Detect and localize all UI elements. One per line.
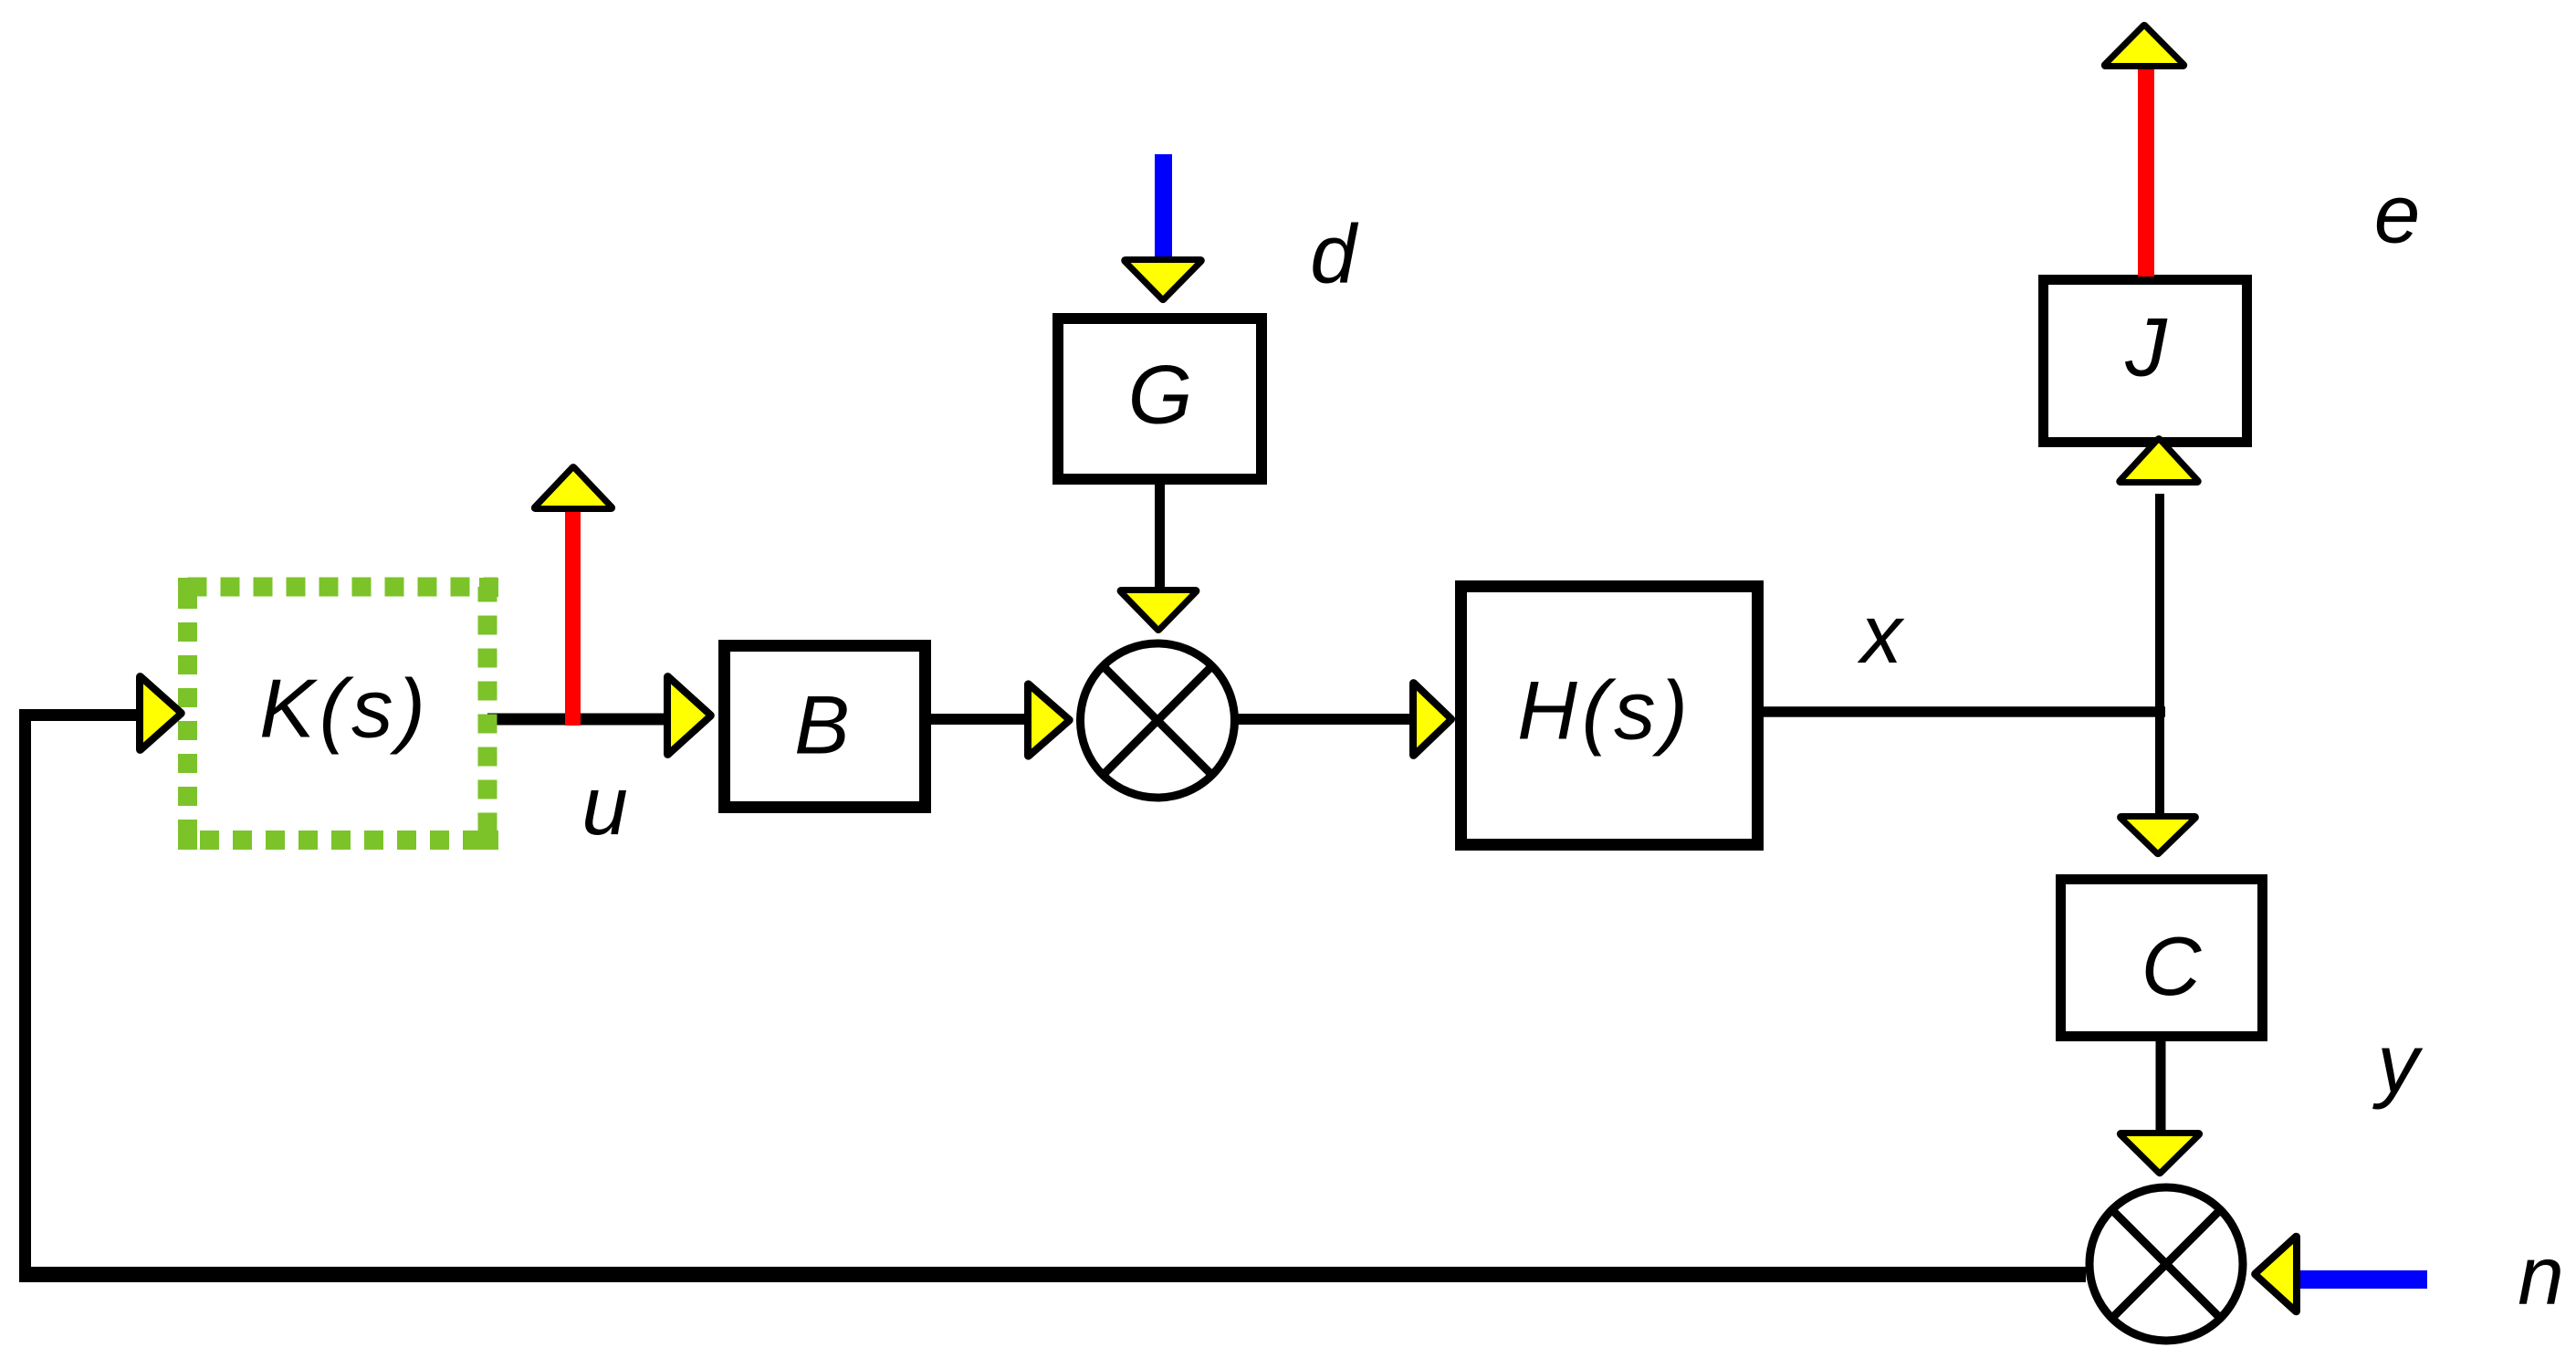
svg-text:H(s): H(s)	[1517, 665, 1692, 757]
svg-text:C: C	[2141, 921, 2203, 1013]
svg-text:y: y	[2372, 1018, 2424, 1111]
svg-text:K(s): K(s)	[259, 663, 430, 756]
svg-text:n: n	[2518, 1230, 2564, 1322]
svg-text:J: J	[2124, 302, 2168, 394]
svg-text:B: B	[794, 680, 850, 772]
svg-text:G: G	[1128, 350, 1193, 442]
svg-text:d: d	[1310, 209, 1359, 301]
svg-text:x: x	[1857, 589, 1905, 681]
svg-text:e: e	[2374, 169, 2421, 261]
svg-text:u: u	[581, 760, 628, 852]
